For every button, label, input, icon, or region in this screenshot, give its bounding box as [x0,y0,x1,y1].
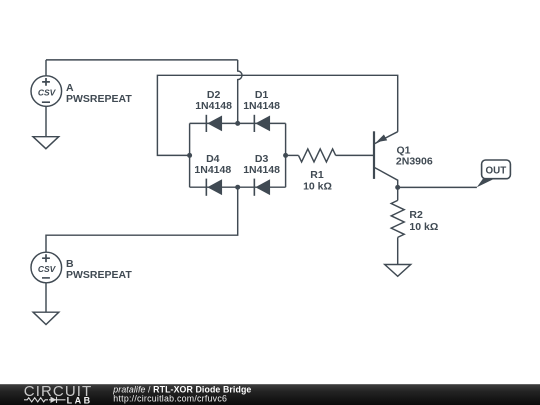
wire R2 to ground [397,237,399,264]
diode D1 symbol [254,115,270,132]
diode D4 symbol [206,179,222,196]
OUT flag pointer [477,179,495,188]
svg-text:CSV: CSV [38,264,57,274]
svg-text:http://circuitlab.com/crfuvc6: http://circuitlab.com/crfuvc6 [113,394,227,404]
diode D3 symbol [254,179,270,196]
wire A top horizontal [46,59,238,61]
svg-text:10 kΩ: 10 kΩ [303,181,332,193]
voltage source V1 minus sign [42,101,50,103]
wire bridge left edge [189,123,191,187]
svg-text:OUT: OUT [486,165,507,176]
junction dot bridge bottom [235,185,240,190]
junction dot bridge top [235,121,240,126]
svg-text:R2: R2 [409,209,423,221]
svg-text:1N4148: 1N4148 [243,164,280,176]
svg-text:1N4148: 1N4148 [243,100,280,112]
wire R1 to Q1 base [336,154,373,156]
ground GNDA [33,137,59,149]
transistor Q1 emitter [374,132,398,144]
wire bridge right node to R1 [286,154,299,156]
wire bridge left node to Q1 emitter [157,75,397,155]
svg-text:PWSREPEAT: PWSREPEAT [66,269,132,281]
footer logo squiggle resistor and diode [24,397,66,403]
svg-text:1N4148: 1N4148 [194,164,231,176]
voltage source V1 circle (A) [31,76,62,107]
resistor R1 [299,149,336,162]
transistor Q1 emitter arrow [376,135,387,143]
svg-text:R1: R1 [310,169,324,181]
node OUT flag box [482,160,511,179]
svg-text:PWSREPEAT: PWSREPEAT [66,93,132,105]
transistor Q1 collector [374,167,398,187]
voltage source V1 plus sign [42,78,50,86]
wire A to ground [45,106,47,136]
wire A top vertical [45,60,47,76]
wire B to ground [45,283,47,313]
ground GNDB [33,312,59,324]
junction dot bridge right [283,153,288,158]
wire bridge bottom edge [190,186,286,188]
wire bridge right edge [285,123,287,187]
footer bar [0,384,540,405]
footer logo diode triangle [51,397,57,403]
svg-text:10 kΩ: 10 kΩ [409,221,438,233]
voltage source V2 minus sign [42,277,50,279]
wire collector to R2 [397,187,399,200]
junction dot bridge left [187,153,192,158]
svg-text:CSV: CSV [38,88,57,98]
wire bridge top edge [190,122,286,124]
voltage source V2 plus sign [42,254,50,262]
svg-text:LAB: LAB [67,395,93,405]
ground GND2 [385,265,411,277]
svg-text:2N3906: 2N3906 [396,156,433,168]
svg-text:1N4148: 1N4148 [195,100,232,112]
resistor R2 [391,200,404,237]
transistor Q1 base bar [373,131,375,179]
voltage source V2 circle (B) [31,252,62,283]
junction dot collector node [395,185,400,190]
wire bridge bottom to B [46,187,238,252]
wire collector to OUT [398,186,477,188]
svg-text:Q1: Q1 [397,144,411,156]
wire A drop with hop over crossing [238,60,242,124]
diode D2 symbol [206,115,222,132]
